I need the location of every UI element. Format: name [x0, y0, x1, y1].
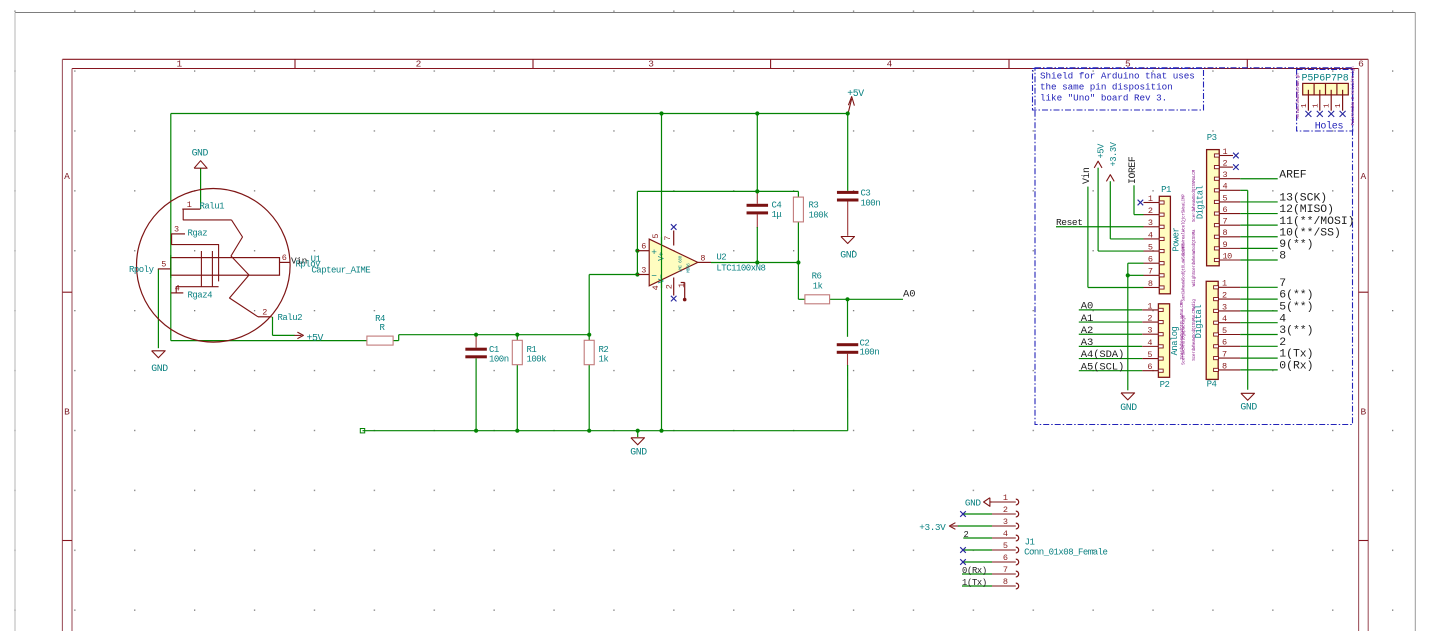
svg-text:IOREF: IOREF: [1127, 156, 1138, 184]
svg-text:P4: P4: [1207, 380, 1217, 390]
svg-text:5(**): 5(**): [1279, 302, 1313, 314]
svg-text:11(**/MOSI): 11(**/MOSI): [1279, 216, 1354, 228]
svg-text:6: 6: [1223, 205, 1228, 215]
svg-text:+: +: [651, 247, 657, 258]
svg-text:6: 6: [1222, 338, 1227, 348]
svg-text:1k: 1k: [813, 282, 823, 292]
svg-text:8: 8: [1223, 228, 1228, 238]
svg-text:R1: R1: [527, 345, 537, 355]
svg-text:2: 2: [1222, 291, 1227, 301]
svg-text:Ralu1: Ralu1: [200, 201, 225, 211]
svg-text:1μ: 1μ: [772, 210, 783, 220]
svg-text:Ralu2: Ralu2: [278, 313, 303, 323]
svg-text:3: 3: [1223, 170, 1228, 180]
svg-text:100k: 100k: [809, 211, 829, 221]
svg-text:4: 4: [1223, 182, 1228, 192]
svg-text:7: 7: [663, 236, 673, 241]
svg-text:WdighScerdWheaWSodQtSNMa: WdighScerdWheaWSodQtSNMa: [1192, 229, 1197, 286]
svg-text:Shield for Arduino that uses: Shield for Arduino that uses: [1040, 71, 1195, 82]
svg-text:−: −: [651, 270, 657, 281]
svg-text:8: 8: [1003, 577, 1008, 587]
svg-text:10(**/SS): 10(**/SS): [1279, 227, 1341, 239]
svg-text:2: 2: [1147, 313, 1152, 323]
svg-text:P3: P3: [1207, 133, 1217, 143]
svg-text:U1: U1: [311, 254, 321, 264]
svg-text:Holes: Holes: [1315, 121, 1344, 133]
svg-text:6(**): 6(**): [1279, 290, 1313, 302]
svg-text:Analog: Analog: [1170, 326, 1180, 355]
svg-text:100n: 100n: [861, 199, 881, 209]
svg-text:7: 7: [1003, 565, 1008, 575]
svg-text:C4: C4: [772, 201, 782, 211]
svg-text:GND: GND: [1240, 402, 1257, 413]
svg-text:13(SCK): 13(SCK): [1279, 193, 1327, 205]
svg-text:Conn_01x08_Female: Conn_01x08_Female: [1024, 548, 1107, 558]
svg-text:Digital: Digital: [1196, 185, 1206, 219]
svg-text:5: 5: [1222, 326, 1227, 336]
svg-text:MntWKoleWXMntHWe.gh: MntWKoleWXMntHWe.gh: [1296, 73, 1301, 119]
svg-text:C3: C3: [861, 189, 871, 199]
svg-text:6: 6: [1148, 255, 1153, 265]
svg-text:4: 4: [1148, 230, 1153, 240]
svg-text:R3: R3: [809, 201, 819, 211]
svg-text:GND: GND: [151, 363, 168, 374]
svg-text:7: 7: [1148, 267, 1153, 277]
svg-text:A2: A2: [1081, 325, 1093, 337]
svg-text:GND: GND: [192, 148, 209, 159]
svg-text:3: 3: [1148, 218, 1153, 228]
svg-text:Capteur_AIME: Capteur_AIME: [311, 265, 370, 275]
svg-text:A1: A1: [1081, 313, 1093, 325]
svg-text:8: 8: [1279, 251, 1286, 263]
svg-text:4: 4: [651, 285, 661, 290]
svg-text:LMC 600: LMC 600: [680, 255, 684, 272]
svg-text:5: 5: [651, 234, 661, 239]
svg-text:1: 1: [187, 200, 192, 210]
svg-text:6: 6: [1003, 553, 1008, 563]
svg-text:5: 5: [1147, 350, 1152, 360]
svg-text:GND: GND: [965, 497, 981, 508]
svg-text:B: B: [64, 407, 70, 418]
svg-text:1(Tx): 1(Tx): [1279, 349, 1313, 361]
svg-text:Vin: Vin: [291, 256, 307, 267]
svg-text:J1: J1: [1025, 537, 1035, 547]
svg-text:SamCWheaWSodQtOLaWSaLCMP: SamCWheaWSodQtOLaWSaLCMP: [1182, 244, 1187, 301]
svg-text:P1: P1: [1161, 185, 1171, 195]
svg-text:0(Rx): 0(Rx): [962, 566, 987, 576]
svg-text:7: 7: [1223, 217, 1228, 227]
svg-text:2: 2: [1003, 505, 1008, 515]
svg-text:3(**): 3(**): [1279, 325, 1313, 337]
svg-text:4: 4: [175, 284, 180, 294]
svg-text:A0: A0: [903, 288, 915, 300]
svg-text:3: 3: [648, 59, 654, 70]
svg-text:U2: U2: [716, 252, 726, 262]
svg-text:1: 1: [177, 59, 183, 70]
svg-text:4: 4: [1222, 314, 1227, 324]
svg-text:2: 2: [262, 308, 267, 318]
svg-text:+3.3V: +3.3V: [1109, 141, 1119, 166]
svg-text:ScerdWheaWSodQtSNMaLCM: ScerdWheaWSodQtSNMaLCM: [1192, 169, 1197, 222]
svg-text:2: 2: [1279, 337, 1286, 349]
svg-text:AREF: AREF: [1279, 169, 1307, 181]
svg-text:1: 1: [677, 283, 687, 288]
svg-text:C1: C1: [489, 345, 499, 355]
svg-text:9: 9: [1223, 240, 1228, 250]
svg-text:2: 2: [1223, 159, 1228, 169]
svg-text:8: 8: [700, 253, 705, 263]
svg-text:2: 2: [964, 530, 969, 540]
svg-text:+5V: +5V: [1097, 143, 1107, 159]
svg-text:A3: A3: [1081, 337, 1093, 349]
svg-text:R2: R2: [599, 345, 609, 355]
svg-text:Power: Power: [1172, 228, 1182, 252]
svg-text:100k: 100k: [527, 355, 547, 365]
svg-text:4: 4: [887, 59, 893, 70]
svg-text:GND: GND: [1120, 402, 1137, 413]
svg-text:ScerdWheaWSodQtOLaWSaLCMP: ScerdWheaWSodQtOLaWSaLCMP: [1180, 300, 1185, 360]
svg-text:Rpoly: Rpoly: [129, 265, 155, 275]
svg-text:1: 1: [1003, 493, 1008, 503]
svg-text:Rgaz4: Rgaz4: [188, 290, 213, 300]
svg-text:1(Tx): 1(Tx): [962, 578, 987, 588]
svg-text:GND: GND: [840, 250, 857, 261]
svg-text:3: 3: [174, 225, 179, 235]
svg-text:4: 4: [1279, 313, 1286, 325]
svg-text:100n: 100n: [860, 348, 880, 358]
svg-text:3: 3: [1003, 517, 1008, 527]
svg-text:1: 1: [1148, 194, 1153, 204]
svg-text:5: 5: [1148, 242, 1153, 252]
svg-text:Vin: Vin: [1081, 167, 1092, 184]
svg-text:ScerdWheaWSodQtSNMaLCMWdig: ScerdWheaWSodQtSNMaLCMWdig: [1192, 299, 1197, 361]
svg-text:P2: P2: [1160, 380, 1170, 390]
svg-text:LTC1100xN8: LTC1100xN8: [716, 264, 765, 274]
svg-text:12(MISO): 12(MISO): [1279, 204, 1334, 216]
svg-text:1: 1: [1223, 147, 1228, 157]
svg-text:3: 3: [641, 266, 646, 276]
svg-text:B: B: [1360, 407, 1366, 418]
svg-text:6: 6: [641, 242, 646, 252]
svg-text:A5(SCL): A5(SCL): [1081, 361, 1124, 373]
svg-text:1: 1: [1222, 279, 1227, 289]
svg-text:2: 2: [664, 284, 674, 289]
svg-text:A4(SDA): A4(SDA): [1081, 349, 1124, 361]
svg-text:A0: A0: [1081, 301, 1093, 313]
svg-text:2: 2: [416, 59, 422, 70]
svg-text:7: 7: [1279, 278, 1286, 290]
svg-text:GND: GND: [630, 447, 647, 458]
svg-text:MB06: MB06: [688, 263, 692, 273]
svg-text:+5V: +5V: [307, 332, 324, 343]
svg-text:0(Rx): 0(Rx): [1279, 361, 1313, 373]
svg-text:3: 3: [1147, 326, 1152, 336]
svg-text:10: 10: [1223, 251, 1233, 261]
svg-text:5: 5: [161, 260, 166, 270]
svg-text:+5V: +5V: [847, 88, 864, 99]
svg-text:4: 4: [1003, 529, 1008, 539]
svg-text:3: 3: [1222, 302, 1227, 312]
svg-text:8: 8: [1148, 279, 1153, 289]
svg-text:100n: 100n: [489, 355, 509, 365]
svg-text:Reset: Reset: [1056, 217, 1083, 228]
svg-text:8: 8: [1222, 361, 1227, 371]
svg-text:Rgaz: Rgaz: [188, 229, 208, 239]
svg-text:6: 6: [1147, 362, 1152, 372]
svg-text:7: 7: [1222, 350, 1227, 360]
svg-text:1k: 1k: [599, 355, 609, 365]
svg-text:9(**): 9(**): [1279, 239, 1313, 251]
svg-text:4: 4: [1147, 338, 1152, 348]
svg-text:A: A: [64, 171, 70, 182]
svg-text:TwistUndWa.8 mcividre.igh: TwistUndWa.8 mcividre.igh: [1351, 66, 1356, 126]
svg-text:like "Uno" board Rev 3.: like "Uno" board Rev 3.: [1040, 93, 1167, 104]
svg-text:5: 5: [1003, 541, 1008, 551]
svg-text:5: 5: [1223, 193, 1228, 203]
svg-text:1: 1: [1147, 301, 1152, 311]
svg-text:R6: R6: [812, 272, 822, 282]
svg-text:6: 6: [1358, 59, 1364, 70]
svg-text:A: A: [1360, 171, 1366, 182]
svg-text:+3.3V: +3.3V: [919, 522, 946, 533]
svg-text:6: 6: [282, 253, 287, 263]
svg-text:the same pin disposition: the same pin disposition: [1040, 82, 1173, 93]
svg-text:2: 2: [1148, 206, 1153, 216]
